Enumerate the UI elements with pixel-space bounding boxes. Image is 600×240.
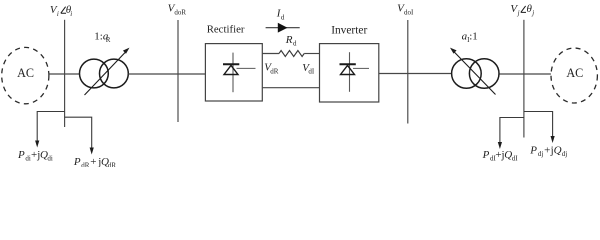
- wire inverter to transformer TI: [379, 73, 452, 75]
- svg-text:j: j: [517, 9, 520, 17]
- svg-text:dI: dI: [512, 155, 519, 163]
- svg-text:di: di: [47, 155, 53, 163]
- svg-text:P: P: [73, 156, 81, 167]
- resistor Rd (zigzag): [279, 51, 304, 57]
- node bus VdoR (vertical line): [177, 20, 179, 122]
- svg-text:Rectifier: Rectifier: [207, 24, 245, 36]
- thyristor in inverter: [340, 52, 370, 92]
- svg-text:doR: doR: [174, 8, 186, 16]
- current Id arrow: [266, 27, 300, 29]
- svg-text:dR: dR: [81, 161, 90, 167]
- wire AC-left to transformer: [49, 73, 80, 75]
- svg-text:doI: doI: [404, 8, 414, 16]
- node bus Vi (vertical line): [64, 20, 66, 127]
- node bus Vj (vertical line): [523, 20, 525, 138]
- svg-text:i: i: [57, 10, 59, 18]
- wire transformer TI to AC-right: [500, 73, 551, 75]
- svg-text:R: R: [106, 36, 111, 44]
- svg-text:d: d: [281, 13, 285, 21]
- svg-text:P: P: [529, 145, 537, 157]
- svg-text:dR: dR: [270, 67, 279, 75]
- svg-text:P: P: [482, 149, 490, 161]
- label PdI: [482, 149, 519, 163]
- svg-text::1: :1: [469, 30, 478, 42]
- svg-text:d: d: [293, 40, 297, 48]
- svg-text:dj: dj: [562, 150, 568, 158]
- inverter box: [320, 44, 379, 102]
- AC source right (dashed circle): [551, 48, 597, 103]
- svg-text:R: R: [285, 34, 293, 46]
- label Pdj: [529, 145, 567, 159]
- wire dc return (bottom): [262, 87, 319, 89]
- svg-text:dj: dj: [538, 150, 544, 158]
- load arrow PdI (right inner): [500, 118, 524, 143]
- load arrow Pdj (right outer): [524, 112, 553, 137]
- rectifier box: [205, 44, 262, 101]
- node bus VdoI (vertical line): [407, 20, 409, 124]
- svg-text:AC: AC: [17, 66, 34, 80]
- svg-text:dR: dR: [108, 161, 117, 167]
- load arrow Pdi (left outer): [37, 112, 64, 142]
- thyristor in rectifier: [223, 53, 256, 93]
- svg-text:P: P: [17, 149, 25, 161]
- transformer TR tap arrow: [85, 51, 127, 95]
- label Vj angle theta_j: [510, 3, 534, 17]
- AC source left (dashed circle): [2, 47, 49, 103]
- transformer TI tap arrow: [453, 51, 496, 95]
- label Pdi: [17, 149, 53, 163]
- transformer TR (two circles): [80, 59, 109, 88]
- svg-text:+: +: [90, 156, 96, 167]
- svg-text:Q: Q: [554, 145, 562, 157]
- wire rectifier to resistor: [262, 53, 279, 55]
- svg-text:AC: AC: [566, 66, 583, 80]
- wire transformer TR to rectifier: [128, 73, 205, 75]
- svg-text:Inverter: Inverter: [331, 25, 367, 37]
- svg-text:+: +: [544, 145, 550, 157]
- label PdR: [73, 156, 117, 170]
- svg-text:i: i: [70, 10, 72, 18]
- svg-text:dI: dI: [308, 68, 315, 76]
- label Vi angle theta_i: [50, 4, 72, 18]
- transformer TI (two circles): [452, 59, 482, 89]
- svg-text:+: +: [31, 149, 37, 161]
- wire resistor to inverter: [304, 53, 319, 55]
- svg-text:j: j: [531, 9, 534, 17]
- load arrow PdR (left inner): [65, 117, 92, 148]
